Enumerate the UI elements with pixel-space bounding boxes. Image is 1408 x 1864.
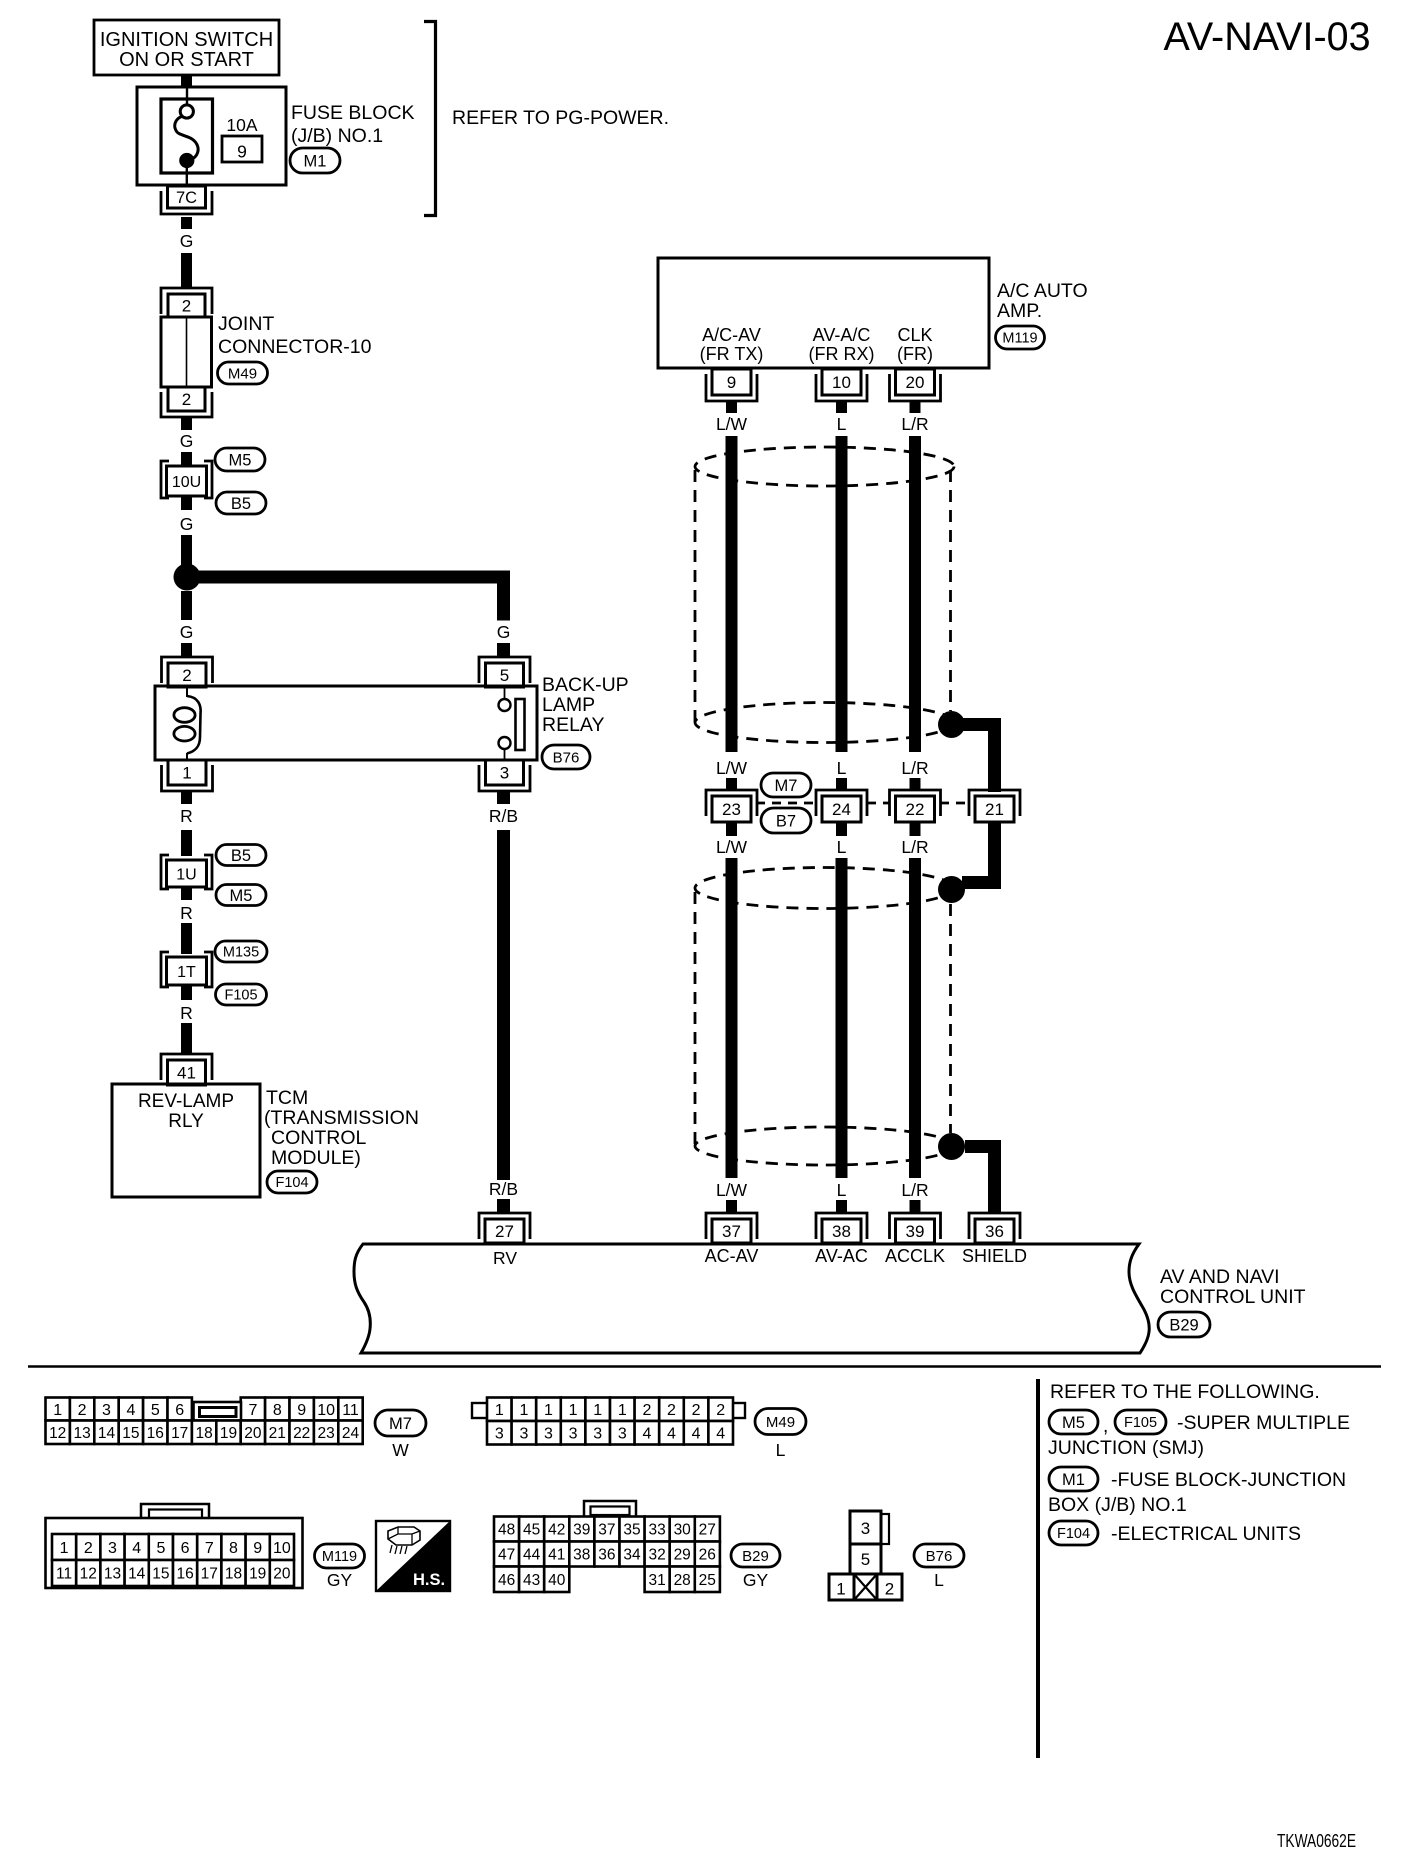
svg-text:A/C-AV: A/C-AV bbox=[702, 325, 761, 345]
svg-text:20: 20 bbox=[906, 373, 925, 392]
svg-text:4: 4 bbox=[132, 1540, 141, 1557]
svg-text:AV AND NAVI: AV AND NAVI bbox=[1160, 1266, 1280, 1288]
svg-text:38: 38 bbox=[573, 1547, 590, 1564]
svg-text:REV-LAMP: REV-LAMP bbox=[138, 1091, 234, 1112]
svg-text:2: 2 bbox=[84, 1540, 93, 1557]
wire G to junction bbox=[181, 535, 192, 565]
joint connector-10 body M49 bbox=[161, 317, 212, 387]
junction dot bbox=[174, 564, 201, 591]
svg-text:M5: M5 bbox=[1062, 1414, 1085, 1432]
svg-text:1T: 1T bbox=[177, 964, 196, 981]
svg-text:W: W bbox=[392, 1440, 409, 1460]
svg-text:16: 16 bbox=[176, 1566, 193, 1583]
connector face B76 relay socket bbox=[881, 1514, 889, 1544]
svg-text:1: 1 bbox=[519, 1402, 528, 1419]
wire R to TCM bbox=[181, 1023, 192, 1054]
svg-text:L: L bbox=[837, 414, 847, 434]
connector oval F104 bbox=[267, 1171, 317, 1193]
wire stub above relay pin 2 bbox=[181, 643, 192, 657]
svg-text:TCM: TCM bbox=[266, 1087, 308, 1109]
svg-text:21: 21 bbox=[985, 800, 1004, 819]
svg-text:14: 14 bbox=[98, 1425, 116, 1442]
connector oval M5 bbox=[215, 448, 265, 471]
svg-text:7C: 7C bbox=[176, 189, 197, 207]
svg-text:7: 7 bbox=[248, 1402, 257, 1419]
svg-text:10A: 10A bbox=[226, 115, 257, 135]
svg-text:M1: M1 bbox=[1062, 1471, 1085, 1489]
wire stub below connector (L) bbox=[836, 822, 847, 836]
connector oval B76 bbox=[542, 745, 590, 769]
svg-text:BOX (J/B) NO.1: BOX (J/B) NO.1 bbox=[1048, 1494, 1187, 1516]
connector face M119 20-pin bbox=[141, 1504, 209, 1519]
svg-text:2: 2 bbox=[182, 297, 191, 316]
wire G to joint connector bbox=[181, 253, 192, 289]
svg-text:G: G bbox=[497, 622, 511, 642]
separator line bbox=[28, 1365, 1381, 1368]
svg-text:B29: B29 bbox=[1169, 1316, 1198, 1334]
relay coil bbox=[186, 687, 188, 697]
connector oval M49 face bbox=[755, 1409, 806, 1435]
connector oval M5 bbox=[216, 885, 266, 906]
svg-text:L: L bbox=[837, 758, 847, 778]
connector oval M7 bbox=[761, 773, 811, 797]
wire stub above relay pin 5 bbox=[497, 643, 510, 657]
svg-text:JOINT: JOINT bbox=[218, 313, 274, 335]
svg-text:43: 43 bbox=[523, 1572, 540, 1589]
TCM box rev-lamp rly bbox=[112, 1084, 260, 1197]
connector oval B5 bbox=[216, 845, 266, 866]
svg-text:GY: GY bbox=[327, 1570, 353, 1590]
svg-text:39: 39 bbox=[906, 1222, 925, 1241]
svg-text:H.S.: H.S. bbox=[413, 1571, 445, 1589]
A/C auto amp box M119 bbox=[658, 258, 989, 368]
connector 2 relay coil top bbox=[162, 657, 213, 683]
ignition switch box bbox=[94, 20, 279, 75]
svg-text:3: 3 bbox=[593, 1426, 602, 1443]
connector 10U SMJ bbox=[161, 461, 169, 498]
wire stub ignition to fuse block bbox=[181, 75, 192, 88]
svg-text:RV: RV bbox=[493, 1248, 517, 1268]
relay contact bbox=[504, 687, 506, 699]
svg-text:TKWA0662E: TKWA0662E bbox=[1277, 1831, 1356, 1851]
svg-text:A/C AUTO: A/C AUTO bbox=[997, 280, 1088, 302]
svg-text:1: 1 bbox=[182, 764, 191, 783]
svg-text:LAMP: LAMP bbox=[542, 694, 595, 716]
connector 21 M7/B7 bbox=[969, 790, 1020, 816]
svg-text:ACCLK: ACCLK bbox=[885, 1246, 945, 1266]
wire stub above 10U bbox=[181, 452, 192, 466]
svg-text:(FR): (FR) bbox=[897, 344, 933, 364]
svg-text:8: 8 bbox=[273, 1402, 282, 1419]
svg-text:B5: B5 bbox=[231, 847, 251, 865]
connector oval M7 face bbox=[375, 1410, 426, 1436]
wire stub above connector (L/W) bbox=[726, 778, 737, 791]
shield cylinder upper bbox=[695, 447, 954, 486]
svg-text:9: 9 bbox=[237, 142, 247, 162]
wire stub above 27 bbox=[497, 1199, 510, 1213]
svg-text:8: 8 bbox=[229, 1540, 238, 1557]
H.S. hydraulic-shop symbol bbox=[376, 1521, 450, 1591]
svg-text:2: 2 bbox=[716, 1402, 725, 1419]
svg-text:3: 3 bbox=[102, 1402, 111, 1419]
wire below junction bbox=[181, 591, 192, 620]
connector oval B5 bbox=[216, 492, 266, 514]
svg-text:3: 3 bbox=[618, 1426, 627, 1443]
svg-text:5: 5 bbox=[156, 1540, 165, 1557]
wire L lower segment bbox=[836, 858, 848, 1178]
svg-text:G: G bbox=[180, 231, 194, 251]
svg-text:2: 2 bbox=[642, 1402, 651, 1419]
svg-text:24: 24 bbox=[832, 800, 851, 819]
svg-text:17: 17 bbox=[201, 1566, 218, 1583]
svg-text:46: 46 bbox=[498, 1572, 515, 1589]
svg-text:M7: M7 bbox=[775, 777, 798, 795]
svg-text:4: 4 bbox=[642, 1426, 651, 1443]
connector oval B29 face bbox=[731, 1544, 780, 1567]
svg-text:3: 3 bbox=[861, 1519, 870, 1538]
svg-text:-ELECTRICAL UNITS: -ELECTRICAL UNITS bbox=[1111, 1523, 1301, 1545]
branch wire to back-up lamp relay bbox=[198, 571, 503, 584]
AV and navi control unit box B29 bbox=[354, 1244, 1149, 1353]
svg-text:4: 4 bbox=[716, 1426, 725, 1443]
connector face B29 bbox=[584, 1501, 636, 1517]
wire R to 1U bbox=[181, 830, 192, 856]
svg-text:36: 36 bbox=[598, 1547, 615, 1564]
svg-text:,: , bbox=[1103, 1416, 1108, 1437]
legend oval F105 bbox=[1115, 1410, 1166, 1434]
svg-text:F105: F105 bbox=[1124, 1415, 1157, 1431]
svg-text:31: 31 bbox=[648, 1572, 665, 1589]
connector 27 AV unit bbox=[479, 1213, 530, 1239]
svg-text:1: 1 bbox=[593, 1402, 602, 1419]
svg-text:M119: M119 bbox=[1002, 331, 1037, 347]
svg-text:22: 22 bbox=[906, 800, 925, 819]
svg-text:29: 29 bbox=[674, 1547, 691, 1564]
svg-text:CONTROL: CONTROL bbox=[271, 1127, 366, 1149]
svg-text:R: R bbox=[180, 1003, 193, 1023]
svg-text:9: 9 bbox=[297, 1402, 306, 1419]
connector 22 M7/B7 bbox=[890, 790, 941, 816]
svg-text:CONNECTOR-10: CONNECTOR-10 bbox=[218, 336, 372, 358]
wire stub above AV unit (L/R) bbox=[910, 1200, 921, 1213]
svg-text:6: 6 bbox=[181, 1540, 190, 1557]
connector 37 AV unit bbox=[706, 1213, 757, 1239]
svg-text:L/R: L/R bbox=[901, 758, 928, 778]
svg-text:L: L bbox=[837, 1180, 847, 1200]
svg-text:14: 14 bbox=[128, 1566, 146, 1583]
back-up lamp relay body B76 bbox=[155, 686, 537, 760]
svg-text:3: 3 bbox=[495, 1426, 504, 1443]
svg-text:L/R: L/R bbox=[901, 414, 928, 434]
svg-text:JUNCTION (SMJ): JUNCTION (SMJ) bbox=[1048, 1437, 1204, 1459]
svg-text:AV-A/C: AV-A/C bbox=[813, 325, 871, 345]
svg-text:2: 2 bbox=[182, 390, 191, 409]
fuse block (J/B) no.1 box M1 bbox=[137, 87, 286, 185]
shield drain wire upper to 21 bbox=[960, 718, 1001, 731]
wire stub below 1U bbox=[181, 887, 192, 900]
svg-text:19: 19 bbox=[249, 1566, 266, 1583]
svg-text:B76: B76 bbox=[553, 749, 580, 766]
svg-text:1: 1 bbox=[60, 1540, 69, 1557]
wire stub below relay pin 3 bbox=[497, 791, 510, 804]
svg-text:IGNITION SWITCH: IGNITION SWITCH bbox=[100, 29, 273, 51]
svg-text:11: 11 bbox=[56, 1566, 72, 1583]
svg-text:R/B: R/B bbox=[489, 1179, 518, 1199]
svg-text:39: 39 bbox=[573, 1522, 590, 1539]
svg-text:5: 5 bbox=[500, 666, 509, 685]
fuse number 9 box bbox=[222, 136, 262, 162]
svg-text:L/R: L/R bbox=[901, 837, 928, 857]
connector oval M135 bbox=[215, 941, 267, 962]
svg-text:1: 1 bbox=[836, 1580, 845, 1599]
svg-text:L/R: L/R bbox=[901, 1180, 928, 1200]
svg-text:9: 9 bbox=[727, 373, 736, 392]
connector face M49 joint connector bbox=[472, 1403, 488, 1418]
wire L/R upper segment bbox=[909, 436, 921, 752]
svg-text:M49: M49 bbox=[766, 1414, 795, 1431]
connector 23 M7/B7 bbox=[706, 790, 757, 816]
svg-text:1: 1 bbox=[569, 1402, 578, 1419]
fuse 10A symbol bbox=[161, 99, 213, 173]
svg-text:12: 12 bbox=[80, 1566, 97, 1583]
svg-text:4: 4 bbox=[126, 1402, 135, 1419]
svg-text:1: 1 bbox=[544, 1402, 553, 1419]
wire stub below amp pin (L/R) bbox=[910, 400, 921, 413]
svg-text:F104: F104 bbox=[275, 1175, 308, 1191]
svg-text:1U: 1U bbox=[176, 866, 196, 883]
shield cylinder lower bbox=[695, 868, 954, 909]
svg-text:M49: M49 bbox=[228, 365, 257, 382]
wire stub below connector (L/R) bbox=[910, 822, 921, 836]
svg-text:22: 22 bbox=[293, 1425, 310, 1442]
svg-text:R: R bbox=[180, 806, 193, 826]
svg-text:L/W: L/W bbox=[716, 758, 748, 778]
svg-text:G: G bbox=[180, 514, 194, 534]
svg-text:BACK-UP: BACK-UP bbox=[542, 674, 629, 696]
svg-text:41: 41 bbox=[177, 1064, 196, 1083]
wire stub below relay pin 1 bbox=[181, 791, 192, 804]
svg-text:10: 10 bbox=[832, 373, 851, 392]
svg-text:B5: B5 bbox=[231, 495, 251, 513]
svg-text:L/W: L/W bbox=[716, 837, 748, 857]
connector oval B7 bbox=[761, 808, 811, 833]
svg-text:35: 35 bbox=[623, 1522, 640, 1539]
wire stub below connector (L/W) bbox=[726, 822, 737, 836]
wire R/B relay to AV unit bbox=[497, 830, 510, 1180]
svg-text:42: 42 bbox=[548, 1522, 565, 1539]
bracket refer to pg-power bbox=[424, 22, 436, 216]
svg-text:L: L bbox=[776, 1440, 786, 1460]
svg-text:10: 10 bbox=[273, 1540, 291, 1557]
connector oval M119 face bbox=[315, 1544, 365, 1568]
svg-text:3: 3 bbox=[544, 1426, 553, 1443]
svg-text:16: 16 bbox=[147, 1425, 164, 1442]
svg-text:AV-NAVI-03: AV-NAVI-03 bbox=[1163, 15, 1370, 59]
svg-text:17: 17 bbox=[171, 1425, 188, 1442]
legend oval F104 bbox=[1049, 1521, 1098, 1545]
svg-text:21: 21 bbox=[269, 1425, 286, 1442]
connector 20 amp bbox=[890, 374, 941, 401]
shield junction dot upper bbox=[938, 711, 965, 738]
svg-text:M119: M119 bbox=[322, 1549, 357, 1565]
connector 2 joint connector top bbox=[161, 288, 212, 314]
svg-text:12: 12 bbox=[49, 1425, 66, 1442]
svg-text:L/W: L/W bbox=[716, 1180, 748, 1200]
svg-text:R/B: R/B bbox=[489, 806, 518, 826]
svg-text:CONTROL UNIT: CONTROL UNIT bbox=[1160, 1286, 1306, 1308]
svg-text:20: 20 bbox=[244, 1425, 262, 1442]
connector 7C bbox=[161, 191, 212, 214]
svg-text:38: 38 bbox=[832, 1222, 851, 1241]
svg-text:18: 18 bbox=[225, 1566, 242, 1583]
svg-text:27: 27 bbox=[495, 1222, 514, 1241]
svg-text:B29: B29 bbox=[742, 1548, 769, 1565]
wire stub above connector (L/R) bbox=[910, 778, 921, 791]
svg-text:45: 45 bbox=[523, 1522, 540, 1539]
legend divider line bbox=[1036, 1379, 1040, 1758]
connector 41 TCM bbox=[161, 1054, 212, 1080]
svg-text:48: 48 bbox=[498, 1522, 515, 1539]
wire stub below amp pin (L) bbox=[836, 400, 847, 413]
svg-text:L: L bbox=[934, 1570, 944, 1590]
connector 2 joint connector bottom bbox=[161, 392, 212, 417]
svg-text:37: 37 bbox=[722, 1222, 741, 1241]
svg-text:9: 9 bbox=[253, 1540, 262, 1557]
svg-text:F104: F104 bbox=[1057, 1526, 1090, 1542]
svg-text:M5: M5 bbox=[230, 887, 253, 905]
connector oval M1 bbox=[290, 148, 340, 173]
svg-text:13: 13 bbox=[104, 1566, 121, 1583]
connector oval F105 bbox=[216, 984, 267, 1005]
svg-text:30: 30 bbox=[674, 1522, 692, 1539]
svg-text:MODULE): MODULE) bbox=[271, 1147, 361, 1169]
svg-text:REFER TO PG-POWER.: REFER TO PG-POWER. bbox=[452, 107, 669, 129]
svg-text:33: 33 bbox=[648, 1522, 665, 1539]
wire L/W lower segment bbox=[726, 858, 738, 1178]
svg-text:19: 19 bbox=[220, 1425, 237, 1442]
svg-text:24: 24 bbox=[342, 1425, 360, 1442]
svg-text:CLK: CLK bbox=[897, 325, 932, 345]
wire stub below 10U bbox=[181, 496, 192, 510]
dashed connector row line M7/B7 bbox=[756, 802, 816, 805]
svg-text:B76: B76 bbox=[926, 1548, 953, 1565]
svg-text:3: 3 bbox=[500, 764, 509, 783]
svg-text:2: 2 bbox=[182, 666, 191, 685]
svg-text:36: 36 bbox=[985, 1222, 1004, 1241]
connector face M7 24-pin bbox=[46, 1398, 70, 1421]
svg-text:1: 1 bbox=[495, 1402, 504, 1419]
svg-text:(J/B) NO.1: (J/B) NO.1 bbox=[291, 125, 383, 147]
svg-text:M1: M1 bbox=[304, 152, 327, 170]
svg-text:4: 4 bbox=[667, 1426, 676, 1443]
wire stub above AV unit (L/W) bbox=[726, 1200, 737, 1213]
wire L/W upper segment bbox=[726, 436, 738, 752]
svg-text:AV-AC: AV-AC bbox=[815, 1246, 868, 1266]
svg-text:1: 1 bbox=[53, 1402, 62, 1419]
svg-text:AC-AV: AC-AV bbox=[705, 1246, 759, 1266]
svg-text:REFER TO THE FOLLOWING.: REFER TO THE FOLLOWING. bbox=[1050, 1381, 1320, 1403]
svg-text:11: 11 bbox=[342, 1402, 359, 1419]
connector 1 relay bottom bbox=[162, 765, 213, 791]
svg-text:2: 2 bbox=[667, 1402, 676, 1419]
legend oval M1 bbox=[1049, 1467, 1098, 1491]
svg-text:-SUPER MULTIPLE: -SUPER MULTIPLE bbox=[1177, 1412, 1350, 1434]
svg-text:7: 7 bbox=[205, 1540, 214, 1557]
svg-text:1: 1 bbox=[618, 1402, 627, 1419]
connector 3 relay bottom bbox=[479, 765, 530, 791]
wire L/R lower segment bbox=[909, 858, 921, 1178]
wire stub below joint connector bbox=[181, 418, 192, 430]
connector 10 amp bbox=[816, 374, 867, 401]
wire stub below 1T bbox=[181, 985, 192, 1000]
svg-text:M7: M7 bbox=[389, 1415, 412, 1433]
svg-text:4: 4 bbox=[692, 1426, 701, 1443]
svg-text:3: 3 bbox=[519, 1426, 528, 1443]
svg-text:44: 44 bbox=[523, 1547, 541, 1564]
wire stub below amp pin (L/W) bbox=[726, 400, 737, 413]
svg-text:26: 26 bbox=[699, 1547, 716, 1564]
svg-text:5: 5 bbox=[151, 1402, 160, 1419]
svg-text:47: 47 bbox=[498, 1547, 515, 1564]
connector 5 relay contact top bbox=[479, 657, 530, 683]
svg-text:RELAY: RELAY bbox=[542, 714, 605, 736]
svg-text:15: 15 bbox=[122, 1425, 139, 1442]
svg-text:G: G bbox=[180, 431, 194, 451]
svg-text:23: 23 bbox=[317, 1425, 334, 1442]
connector oval M119 bbox=[996, 326, 1045, 349]
svg-text:M135: M135 bbox=[223, 945, 259, 961]
connector 38 AV unit bbox=[816, 1213, 867, 1239]
shield junction dot middle bbox=[938, 876, 965, 903]
svg-text:25: 25 bbox=[699, 1572, 716, 1589]
svg-text:2: 2 bbox=[78, 1402, 87, 1419]
svg-text:5: 5 bbox=[861, 1550, 870, 1569]
svg-text:2: 2 bbox=[885, 1580, 894, 1599]
connector oval B29 bbox=[1158, 1312, 1210, 1337]
wire stub above AV unit (L) bbox=[836, 1200, 847, 1213]
connector 39 AV unit bbox=[890, 1213, 941, 1239]
svg-text:GY: GY bbox=[743, 1570, 769, 1590]
svg-text:L/W: L/W bbox=[716, 414, 748, 434]
svg-text:(FR RX): (FR RX) bbox=[809, 344, 875, 364]
svg-text:18: 18 bbox=[195, 1425, 212, 1442]
svg-text:27: 27 bbox=[699, 1522, 716, 1539]
svg-text:G: G bbox=[180, 622, 194, 642]
svg-text:SHIELD: SHIELD bbox=[962, 1246, 1027, 1266]
wire stub below 7C bbox=[181, 217, 192, 229]
svg-text:F105: F105 bbox=[224, 988, 257, 1004]
svg-text:37: 37 bbox=[598, 1522, 615, 1539]
svg-text:RLY: RLY bbox=[168, 1111, 204, 1132]
connector 1T bbox=[161, 952, 169, 987]
shield drain wire 21 to lower dot bbox=[988, 822, 1001, 889]
svg-text:10U: 10U bbox=[172, 474, 201, 491]
svg-text:-FUSE BLOCK-JUNCTION: -FUSE BLOCK-JUNCTION bbox=[1111, 1469, 1346, 1491]
svg-text:28: 28 bbox=[674, 1572, 691, 1589]
svg-text:10: 10 bbox=[317, 1402, 335, 1419]
svg-text:B7: B7 bbox=[776, 812, 796, 830]
wire stub above connector (L) bbox=[836, 778, 847, 791]
svg-text:FUSE BLOCK: FUSE BLOCK bbox=[291, 102, 415, 124]
svg-text:13: 13 bbox=[73, 1425, 90, 1442]
shield drain wire to 36 bbox=[965, 1140, 1001, 1153]
svg-text:40: 40 bbox=[548, 1572, 566, 1589]
wire L upper segment bbox=[836, 436, 848, 752]
svg-text:32: 32 bbox=[648, 1547, 665, 1564]
svg-text:6: 6 bbox=[175, 1402, 184, 1419]
connector oval B76 face bbox=[914, 1544, 964, 1567]
svg-text:20: 20 bbox=[273, 1566, 291, 1583]
